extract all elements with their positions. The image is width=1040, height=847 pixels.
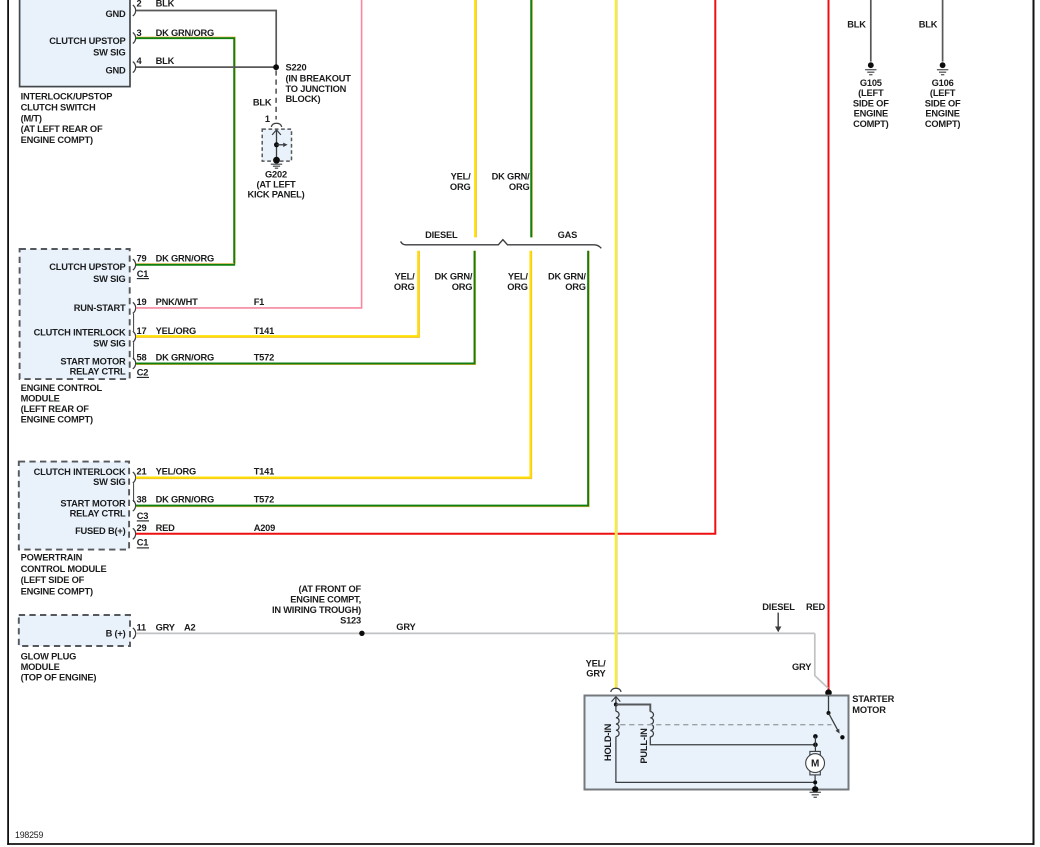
glow plug pin 11 (133, 628, 136, 639)
svg-text:C2: C2 (137, 368, 149, 378)
svg-text:T572: T572 (254, 353, 274, 363)
svg-text:29: 29 (137, 523, 147, 533)
motor ground wire (814, 775, 816, 790)
svg-text:(AT LEFT: (AT LEFT (256, 180, 296, 190)
svg-text:STARTER: STARTER (852, 694, 894, 704)
svg-text:DK GRN/ORG: DK GRN/ORG (156, 254, 214, 264)
svg-text:ORG: ORG (450, 182, 471, 192)
svg-text:21: 21 (137, 467, 147, 477)
svg-text:CLUTCH UPSTOP: CLUTCH UPSTOP (49, 262, 125, 272)
wire BLK pin2 to S220 (136, 11, 276, 67)
svg-text:CLUTCH INTERLOCK: CLUTCH INTERLOCK (34, 328, 126, 338)
ECM connector C2 link line pins 17-58 (133, 342, 135, 359)
svg-text:YEL/: YEL/ (395, 271, 415, 281)
wire YEL/ORG pin21 to gas brace (136, 251, 532, 479)
svg-text:11: 11 (137, 622, 146, 632)
svg-text:ENGINE CONTROL: ENGINE CONTROL (21, 383, 103, 393)
starter motor terminal junction (825, 689, 832, 696)
svg-text:IN WIRING TROUGH): IN WIRING TROUGH) (272, 605, 361, 615)
svg-text:PNK/WHT: PNK/WHT (156, 297, 199, 307)
wire YEL/GRY from top to starter (616, 0, 618, 688)
svg-text:DK GRN/: DK GRN/ (434, 271, 472, 281)
hold-in coil return wire (616, 737, 816, 783)
svg-text:B (+): B (+) (106, 629, 126, 639)
svg-text:YEL/: YEL/ (508, 271, 528, 281)
svg-text:(LEFT: (LEFT (930, 88, 956, 98)
pull-in coil return wire (650, 737, 815, 745)
svg-text:CLUTCH SWITCH: CLUTCH SWITCH (21, 103, 96, 113)
svg-text:ENGINE: ENGINE (925, 109, 959, 119)
G202 internal node dot (274, 142, 279, 147)
svg-text:ENGINE COMPT): ENGINE COMPT) (21, 135, 93, 145)
svg-text:GND: GND (105, 65, 126, 75)
starter motor box (585, 696, 849, 790)
svg-text:(LEFT REAR OF: (LEFT REAR OF (21, 404, 90, 414)
ECM pin 19 (133, 302, 136, 313)
svg-text:DIESEL: DIESEL (425, 230, 458, 240)
wire BLK to G105 (870, 0, 872, 62)
svg-text:S123: S123 (340, 615, 361, 625)
ground G105 (868, 62, 874, 68)
wire DK GRN/ORG pin3 to ECM pin79 (136, 37, 235, 264)
wire DK GRN/ORG from top to brace (531, 0, 533, 237)
wire PNK/WHT pin19 (136, 0, 362, 308)
svg-text:38: 38 (137, 495, 147, 505)
svg-text:S220: S220 (286, 63, 307, 73)
svg-text:BLK: BLK (253, 98, 272, 108)
svg-text:79: 79 (137, 254, 147, 264)
wire RED pin29 fused B+ (136, 0, 715, 534)
PCM pin 38 (133, 500, 136, 511)
PCM pin 21 (133, 472, 136, 483)
wire to pull-in coil (616, 705, 650, 712)
wire DK GRN/ORG pin58 to diesel brace (136, 251, 476, 365)
svg-text:SIDE OF: SIDE OF (853, 98, 889, 108)
svg-text:SW SIG: SW SIG (93, 48, 125, 58)
clutch switch pin 3 (133, 33, 136, 44)
svg-text:SW SIG: SW SIG (93, 274, 125, 284)
wire BLK dashed S220 to G202 (275, 70, 277, 119)
svg-text:HOLD-IN: HOLD-IN (603, 723, 613, 761)
wire DK GRN/ORG pin38 to gas brace (136, 251, 589, 507)
svg-text:A2: A2 (184, 622, 196, 632)
svg-text:SW SIG: SW SIG (93, 477, 125, 487)
svg-text:YEL/ORG: YEL/ORG (156, 326, 196, 336)
svg-text:FUSED B(+): FUSED B(+) (75, 526, 126, 536)
solenoid linkage dashed (620, 724, 831, 726)
svg-text:2: 2 (137, 0, 142, 9)
svg-text:BLK: BLK (847, 19, 866, 29)
svg-text:1: 1 (265, 114, 270, 124)
pull-in coil (650, 712, 653, 737)
svg-text:CLUTCH INTERLOCK: CLUTCH INTERLOCK (34, 467, 126, 477)
splice S220 (273, 64, 279, 70)
glow plug module box (19, 615, 130, 646)
svg-text:GRY: GRY (586, 669, 606, 679)
svg-text:ORG: ORG (565, 282, 586, 292)
svg-text:G202: G202 (265, 169, 287, 179)
svg-text:(AT FRONT OF: (AT FRONT OF (299, 584, 362, 594)
svg-text:DK GRN/: DK GRN/ (548, 271, 586, 281)
svg-text:C1: C1 (137, 538, 149, 548)
ECM connector C2 link line pins 19-17 (133, 314, 135, 332)
svg-text:MODULE: MODULE (21, 394, 60, 404)
PCM connector C3 link line pins 21-38 (133, 483, 135, 502)
svg-text:M: M (811, 759, 819, 770)
svg-text:T141: T141 (254, 326, 274, 336)
svg-text:ORG: ORG (452, 282, 473, 292)
clutch switch pin 4 (133, 62, 136, 73)
wire RED from top to starter (828, 0, 830, 693)
switch fixed contact (813, 734, 818, 739)
ground G202 (273, 157, 280, 164)
svg-text:CONTROL MODULE: CONTROL MODULE (21, 564, 107, 574)
svg-text:RED: RED (806, 602, 826, 612)
splice S123 (359, 631, 364, 636)
svg-text:ORG: ORG (507, 282, 528, 292)
svg-text:BLK: BLK (156, 0, 175, 8)
wire GRY drop to starter terminal (815, 633, 828, 688)
svg-text:YEL/: YEL/ (451, 171, 471, 181)
svg-text:RELAY CTRL: RELAY CTRL (70, 367, 126, 377)
svg-text:GRY: GRY (156, 622, 176, 632)
ground G106 (940, 62, 946, 68)
svg-text:C1: C1 (137, 269, 149, 279)
wire BLK pin4 to S220 (136, 66, 276, 68)
svg-text:RUN-START: RUN-START (74, 303, 126, 313)
svg-text:BLK: BLK (156, 56, 175, 66)
svg-text:START MOTOR: START MOTOR (60, 499, 126, 509)
wire BLK to G106 (942, 0, 944, 62)
svg-text:MODULE: MODULE (21, 662, 60, 672)
svg-text:58: 58 (137, 353, 147, 363)
G202 internal right arrow (277, 144, 284, 146)
starter internal feed arrow (615, 697, 617, 705)
svg-text:(LEFT SIDE OF: (LEFT SIDE OF (21, 575, 85, 585)
wire DK GRN/ORG pin79 (136, 263, 234, 265)
wire YEL/ORG pin17 to diesel brace (136, 251, 419, 337)
motor M (810, 751, 820, 775)
svg-text:DK GRN/ORG: DK GRN/ORG (156, 353, 214, 363)
svg-text:(TOP OF ENGINE): (TOP OF ENGINE) (21, 672, 97, 682)
svg-text:ORG: ORG (509, 182, 530, 192)
svg-text:17: 17 (137, 326, 147, 336)
svg-text:(IN BREAKOUT: (IN BREAKOUT (286, 74, 352, 84)
svg-text:YEL/ORG: YEL/ORG (156, 467, 196, 477)
svg-text:YEL/: YEL/ (586, 658, 606, 668)
PCM pin 29 (133, 528, 136, 539)
engine control module box (20, 249, 130, 379)
svg-text:19: 19 (137, 297, 147, 307)
page bottom border (7, 843, 1034, 845)
svg-text:ENGINE: ENGINE (854, 109, 888, 119)
clutch switch pin 2 (133, 5, 136, 16)
svg-text:G105: G105 (860, 78, 882, 88)
svg-text:CLUTCH UPSTOP: CLUTCH UPSTOP (49, 36, 125, 46)
svg-text:GRY: GRY (792, 662, 812, 672)
svg-text:TO JUNCTION: TO JUNCTION (286, 84, 347, 94)
svg-text:4: 4 (137, 56, 143, 66)
svg-text:PULL-IN: PULL-IN (639, 728, 649, 764)
G202 internal up arrow (276, 130, 278, 160)
svg-text:GAS: GAS (558, 230, 578, 240)
svg-text:ORG: ORG (394, 282, 415, 292)
svg-text:198259: 198259 (15, 830, 43, 840)
starter switch (828, 696, 830, 713)
powertrain control module box (19, 462, 129, 550)
hold-in coil (615, 705, 617, 712)
interlock/upstop clutch switch box (20, 0, 130, 87)
ECM pin 17 (133, 331, 136, 342)
wire YEL/ORG from top to brace (475, 0, 477, 237)
svg-text:DIESEL: DIESEL (762, 602, 795, 612)
svg-text:RELAY CTRL: RELAY CTRL (70, 509, 126, 519)
svg-text:INTERLOCK/UPSTOP: INTERLOCK/UPSTOP (21, 92, 113, 102)
svg-text:G106: G106 (932, 78, 954, 88)
wire GRY glow plug to starter (136, 632, 815, 634)
svg-text:COMPT): COMPT) (925, 119, 961, 129)
svg-text:A209: A209 (254, 523, 275, 533)
svg-text:START MOTOR: START MOTOR (60, 357, 126, 367)
svg-text:ENGINE COMPT,: ENGINE COMPT, (290, 595, 361, 605)
svg-text:DK GRN/ORG: DK GRN/ORG (156, 495, 214, 505)
svg-text:GND: GND (105, 9, 126, 19)
svg-text:F1: F1 (254, 297, 264, 307)
svg-text:T141: T141 (254, 467, 274, 477)
svg-text:MOTOR: MOTOR (852, 705, 886, 715)
svg-text:C3: C3 (137, 511, 149, 521)
page left border (7, 0, 9, 845)
svg-text:ENGINE COMPT): ENGINE COMPT) (21, 586, 93, 596)
G202 junction block box (262, 129, 291, 161)
ECM pin 79 (133, 259, 136, 270)
page right border (1033, 0, 1035, 845)
svg-text:POWERTRAIN: POWERTRAIN (21, 553, 83, 563)
svg-text:GLOW PLUG: GLOW PLUG (21, 651, 77, 661)
svg-text:BLK: BLK (919, 19, 938, 29)
starter ground (812, 786, 818, 792)
svg-text:BLOCK): BLOCK) (286, 94, 321, 104)
svg-text:(AT LEFT REAR OF: (AT LEFT REAR OF (21, 124, 103, 134)
svg-text:DK GRN/: DK GRN/ (492, 171, 530, 181)
svg-text:KICK PANEL): KICK PANEL) (247, 190, 304, 200)
svg-text:ENGINE COMPT): ENGINE COMPT) (21, 415, 93, 425)
svg-text:SW SIG: SW SIG (93, 339, 125, 349)
svg-text:(LEFT: (LEFT (858, 88, 884, 98)
svg-text:T572: T572 (254, 495, 274, 505)
svg-text:COMPT): COMPT) (853, 119, 889, 129)
starter connector arc (611, 688, 621, 692)
svg-text:GRY: GRY (396, 622, 416, 632)
svg-text:(M/T): (M/T) (21, 113, 42, 123)
svg-text:SIDE OF: SIDE OF (925, 98, 961, 108)
ECM pin 58 (133, 358, 136, 369)
diesel/gas split brace (401, 240, 602, 249)
svg-text:RED: RED (156, 523, 176, 533)
